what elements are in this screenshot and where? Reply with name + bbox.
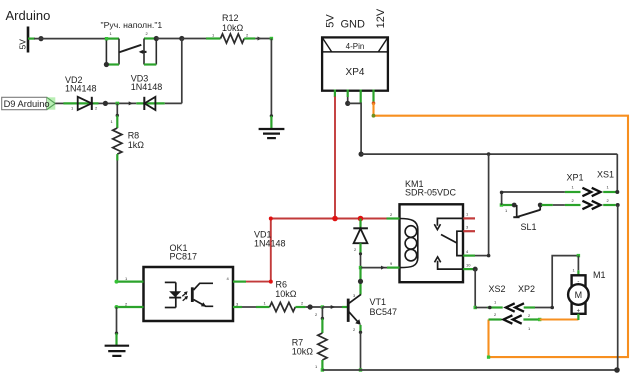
node GND junction under XP4 pin2 (345, 101, 350, 106)
node red junction XP4 5V (332, 216, 338, 222)
svg-text:10kΩ: 10kΩ (292, 347, 314, 357)
diode VD2 1N4148 (63, 75, 98, 111)
pin 1 (117, 281, 144, 283)
motor M1 (568, 268, 605, 321)
connector pair XS2 / XP2 row2 (489, 312, 542, 331)
svg-text:1N4148: 1N4148 (65, 84, 97, 94)
node junction R6/R7 (308, 304, 313, 309)
relay NO pin (463, 268, 475, 270)
wire node to VT1 base (322, 306, 342, 308)
svg-text:10kΩ: 10kΩ (222, 23, 244, 33)
ground symbol at OK1 (105, 346, 130, 356)
node T junction to relay common (487, 152, 491, 156)
relay KM1 SDR-05VDC (387, 179, 476, 282)
wire orange 12V from XP4 pin4 (374, 103, 629, 357)
svg-text:PC817: PC817 (170, 252, 198, 262)
power 5V rail symbol (17, 27, 35, 53)
wire VT1 emitter down to rail (359, 325, 361, 331)
node junction on 5V rail (38, 36, 43, 41)
wire red 5V from XP4 pin1 down (334, 97, 336, 219)
wire VD2 to node (99, 102, 111, 104)
wire R12 to ground corner (255, 38, 271, 40)
connector XP4 4-Pin (322, 8, 388, 105)
wire pin2 to pin3 gnd jog (348, 103, 361, 154)
internal LED (165, 281, 176, 283)
relay contact drawing (437, 218, 463, 225)
svg-text:M1: M1 (593, 270, 606, 280)
svg-text:5V: 5V (17, 39, 27, 50)
wire down to motor pin1 (577, 256, 579, 271)
wire right edge down to XS1 pin1 (616, 154, 618, 192)
wire node to relay coil- pin (361, 267, 388, 269)
svg-text:5V: 5V (325, 14, 337, 28)
wire VD3 to switch branch corner (165, 102, 182, 104)
pin 3 (233, 306, 242, 308)
svg-text:12V: 12V (375, 8, 387, 28)
svg-text:SL1: SL1 (521, 222, 537, 232)
node junction diode row (103, 101, 108, 106)
wire GND rail to right edge (361, 153, 617, 155)
pin 4 (233, 281, 246, 283)
svg-text:R8: R8 (128, 131, 140, 141)
svg-text:10: 10 (466, 262, 471, 267)
svg-text:R12: R12 (222, 13, 239, 23)
wire node down to VT1 collector (359, 268, 361, 295)
wire XS1 pin2 down right edge to bottom rail (617, 205, 619, 370)
wire relay NO row to XS2 (475, 307, 487, 309)
wire relay NO down to XS2 row (474, 269, 476, 307)
relay coil (400, 219, 418, 268)
switch SL1 (500, 203, 553, 233)
svg-text:"Руч. наполн."1: "Руч. наполн."1 (101, 20, 163, 30)
wire D9 to VD2 (55, 102, 64, 104)
svg-text:1N4148: 1N4148 (131, 82, 163, 92)
svg-text:10kΩ: 10kΩ (275, 289, 297, 299)
wire VD1 to coil-return node (360, 253, 362, 268)
svg-text:XP1: XP1 (567, 172, 584, 182)
wire red to OK1 pin4 (246, 219, 271, 282)
optocoupler OK1 PC817 (115, 243, 247, 321)
connector pair XS2 / XP2 row1 (488, 284, 536, 318)
resistor R8 1kΩ (111, 103, 145, 160)
resistor R12 10kΩ (206, 13, 255, 43)
relay common pin (463, 255, 475, 257)
transistor VT1 BC547 (348, 293, 397, 332)
light arrows (182, 293, 186, 296)
svg-text:GND: GND (341, 18, 366, 30)
node relay NO junction (473, 267, 478, 272)
wire OK1 pin3 to R6 (242, 306, 257, 308)
wire relay common to gnd drop (475, 255, 489, 257)
svg-text:BC547: BC547 (370, 307, 398, 317)
node label D9 Arduino (2, 97, 56, 109)
svg-text:XP4: XP4 (346, 67, 365, 78)
wire R8 down to OK1 pin1 (116, 161, 118, 282)
svg-text:4-Pin: 4-Pin (346, 42, 365, 51)
svg-text:1kΩ: 1kΩ (128, 140, 145, 150)
svg-text:M: M (575, 290, 583, 300)
wire arrow marker after R12 (258, 37, 262, 41)
wire SL1 to XP1 pin2 (553, 204, 565, 206)
node red junction VD1 (358, 216, 364, 222)
wire 5V to switch (34, 38, 106, 40)
wire orange XP2 pin2 to motor pin2 (540, 318, 579, 320)
wire bottom rail (322, 369, 617, 371)
connector pair XP1 / XS1 row2 (565, 198, 620, 209)
svg-text:VT1: VT1 (370, 297, 387, 307)
connector pair XP1 / XS1 row1 (565, 169, 619, 196)
pin 2 (117, 306, 144, 308)
diode VD1 1N4148 (254, 219, 368, 253)
wire XP1 row1 from SL1 node (502, 192, 565, 205)
wire switch to junction (156, 38, 182, 40)
svg-text:XP2: XP2 (518, 284, 535, 294)
wire OK1 pin2 to ground (116, 307, 118, 333)
wire down to relay common pin (488, 154, 490, 256)
internal phototransistor (191, 287, 194, 302)
svg-text:D9 Arduino: D9 Arduino (4, 99, 50, 109)
svg-text:Arduino: Arduino (6, 8, 51, 23)
node GND junction (359, 152, 364, 157)
node junction top rail (179, 36, 184, 41)
svg-text:SDR-05VDC: SDR-05VDC (405, 187, 457, 197)
relay NC contact pins (red stubs) (463, 217, 475, 219)
svg-text:+: + (577, 309, 581, 315)
ground symbol at R12 (259, 129, 285, 138)
wire red rail horizontal (271, 218, 387, 220)
svg-text:XS2: XS2 (489, 284, 506, 294)
wire junction to R12 (182, 38, 206, 40)
svg-text:XS1: XS1 (597, 169, 614, 179)
resistor R6 10kΩ (256, 280, 305, 312)
node junction collector (358, 279, 363, 284)
node bottom-right junction (614, 367, 620, 373)
svg-text:1N4148: 1N4148 (254, 239, 286, 249)
switch "Руч. наполн."1 (101, 20, 163, 67)
wire node to VD3 with R8 tap (110, 102, 136, 104)
resistor R7 10kΩ (292, 307, 327, 372)
wire R6 to base node (305, 306, 322, 308)
diode VD3 1N4148 (131, 74, 165, 111)
wire XP2 pin1 to motor (535, 256, 578, 308)
